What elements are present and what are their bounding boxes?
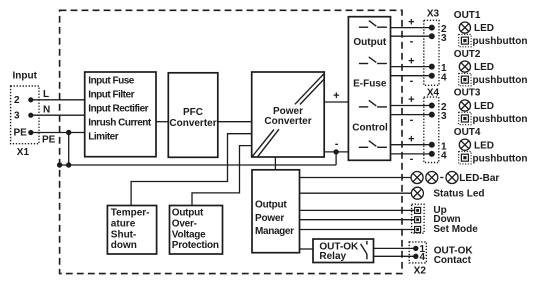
svg-text:Input Rectifier: Input Rectifier	[88, 104, 148, 115]
svg-text:+: +	[408, 94, 414, 106]
svg-text:pushbutton: pushbutton	[473, 153, 528, 164]
svg-text:-: -	[335, 138, 339, 150]
svg-text:Set Mode: Set Mode	[433, 224, 478, 235]
svg-text:Status Led: Status Led	[433, 189, 484, 200]
svg-text:+: +	[333, 90, 339, 102]
svg-text:+: +	[408, 55, 414, 67]
svg-text:LED: LED	[474, 140, 494, 151]
svg-text:LED: LED	[474, 23, 494, 34]
svg-text:X1: X1	[17, 147, 30, 158]
svg-text:OUT3: OUT3	[454, 88, 481, 99]
svg-text:down: down	[111, 240, 137, 251]
svg-text:-: -	[410, 114, 414, 126]
svg-text:X3: X3	[427, 9, 440, 20]
svg-text:-: -	[410, 35, 414, 47]
svg-text:3: 3	[441, 111, 447, 122]
svg-text:pushbutton: pushbutton	[473, 75, 528, 86]
svg-text:Output: Output	[353, 37, 386, 48]
svg-text:pushbutton: pushbutton	[473, 36, 528, 47]
svg-text:X4: X4	[427, 88, 440, 99]
svg-text:+: +	[408, 16, 414, 28]
svg-text:OUT1: OUT1	[454, 10, 481, 21]
svg-text:LED: LED	[474, 62, 494, 73]
svg-text:Manager: Manager	[255, 226, 294, 237]
svg-text:-: -	[410, 153, 414, 165]
svg-text:Inrush Current: Inrush Current	[88, 118, 152, 129]
svg-text:OUT4: OUT4	[454, 127, 481, 138]
svg-text:4: 4	[441, 151, 447, 162]
svg-text:Output: Output	[255, 200, 287, 211]
svg-text:Power: Power	[255, 213, 284, 224]
svg-text:PFC: PFC	[183, 107, 203, 118]
svg-text:2: 2	[14, 95, 20, 106]
svg-text:Limiter: Limiter	[88, 132, 118, 143]
svg-text:Input Filter: Input Filter	[88, 90, 134, 101]
svg-text:Relay: Relay	[319, 251, 346, 262]
svg-text:Converter: Converter	[169, 118, 216, 129]
svg-text:Converter: Converter	[264, 116, 311, 127]
svg-text:Protection: Protection	[172, 240, 219, 251]
svg-text:Temper-: Temper-	[111, 208, 150, 219]
svg-text:ature: ature	[111, 219, 136, 230]
svg-text:Shut-: Shut-	[111, 229, 137, 240]
svg-text:Contact: Contact	[434, 255, 472, 266]
svg-text:Over-: Over-	[172, 219, 197, 230]
svg-text:PE: PE	[42, 134, 56, 145]
svg-text:LED-Bar: LED-Bar	[459, 173, 499, 184]
svg-text:OUT2: OUT2	[454, 49, 481, 60]
svg-text:Output: Output	[172, 208, 204, 219]
svg-text:Input: Input	[13, 71, 38, 82]
svg-text:N: N	[43, 105, 50, 116]
svg-text:LED: LED	[474, 101, 494, 112]
svg-text:4: 4	[420, 252, 426, 263]
svg-text:+: +	[408, 133, 414, 145]
svg-text:Voltage: Voltage	[172, 229, 206, 240]
svg-text:Control: Control	[352, 123, 388, 134]
svg-text:X2: X2	[414, 266, 427, 277]
svg-text:3: 3	[441, 33, 447, 44]
svg-text:pushbutton: pushbutton	[473, 114, 528, 125]
svg-text:-: -	[410, 75, 414, 87]
svg-text:E-Fuse: E-Fuse	[353, 79, 387, 90]
svg-text:3: 3	[14, 110, 20, 121]
svg-text:L: L	[43, 89, 49, 100]
svg-text:PE: PE	[14, 128, 28, 139]
svg-text:4: 4	[441, 72, 447, 83]
svg-text:Input Fuse: Input Fuse	[88, 76, 134, 87]
